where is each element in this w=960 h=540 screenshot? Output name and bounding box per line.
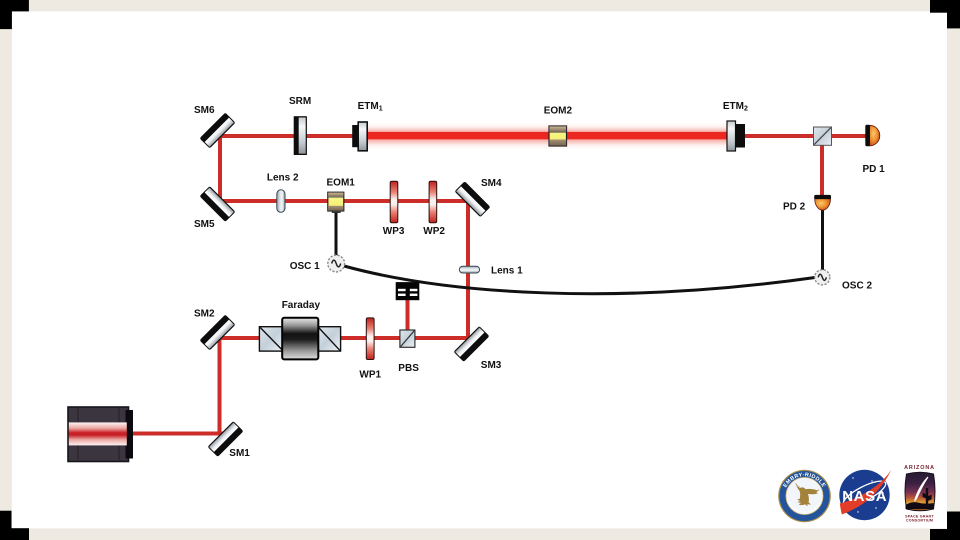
svg-text:SM4: SM4 [481,178,502,189]
svg-text:ARIZONA: ARIZONA [904,465,935,471]
svg-text:WP1: WP1 [359,370,381,381]
svg-text:SM1: SM1 [229,448,250,459]
svg-text:WP2: WP2 [423,226,445,237]
svg-text:SM2: SM2 [194,309,215,320]
svg-text:Faraday: Faraday [282,300,321,311]
svg-text:Lens 1: Lens 1 [491,266,523,277]
svg-text:SM6: SM6 [194,105,215,116]
svg-text:SM5: SM5 [194,219,215,230]
svg-text:Lens 2: Lens 2 [267,173,299,184]
svg-text:NASA: NASA [842,488,887,505]
svg-text:PD 2: PD 2 [783,202,806,213]
svg-text:SRM: SRM [289,96,311,107]
svg-text:OSC 2: OSC 2 [842,281,872,292]
svg-text:CONSORTIUM: CONSORTIUM [906,519,933,523]
svg-text:OSC 1: OSC 1 [290,261,320,272]
svg-text:EOM2: EOM2 [544,106,573,117]
svg-text:PD 1: PD 1 [863,164,886,175]
svg-text:EOM1: EOM1 [327,178,356,189]
svg-text:PBS: PBS [398,363,419,374]
svg-text:SM3: SM3 [481,360,502,371]
svg-text:WP3: WP3 [383,226,405,237]
